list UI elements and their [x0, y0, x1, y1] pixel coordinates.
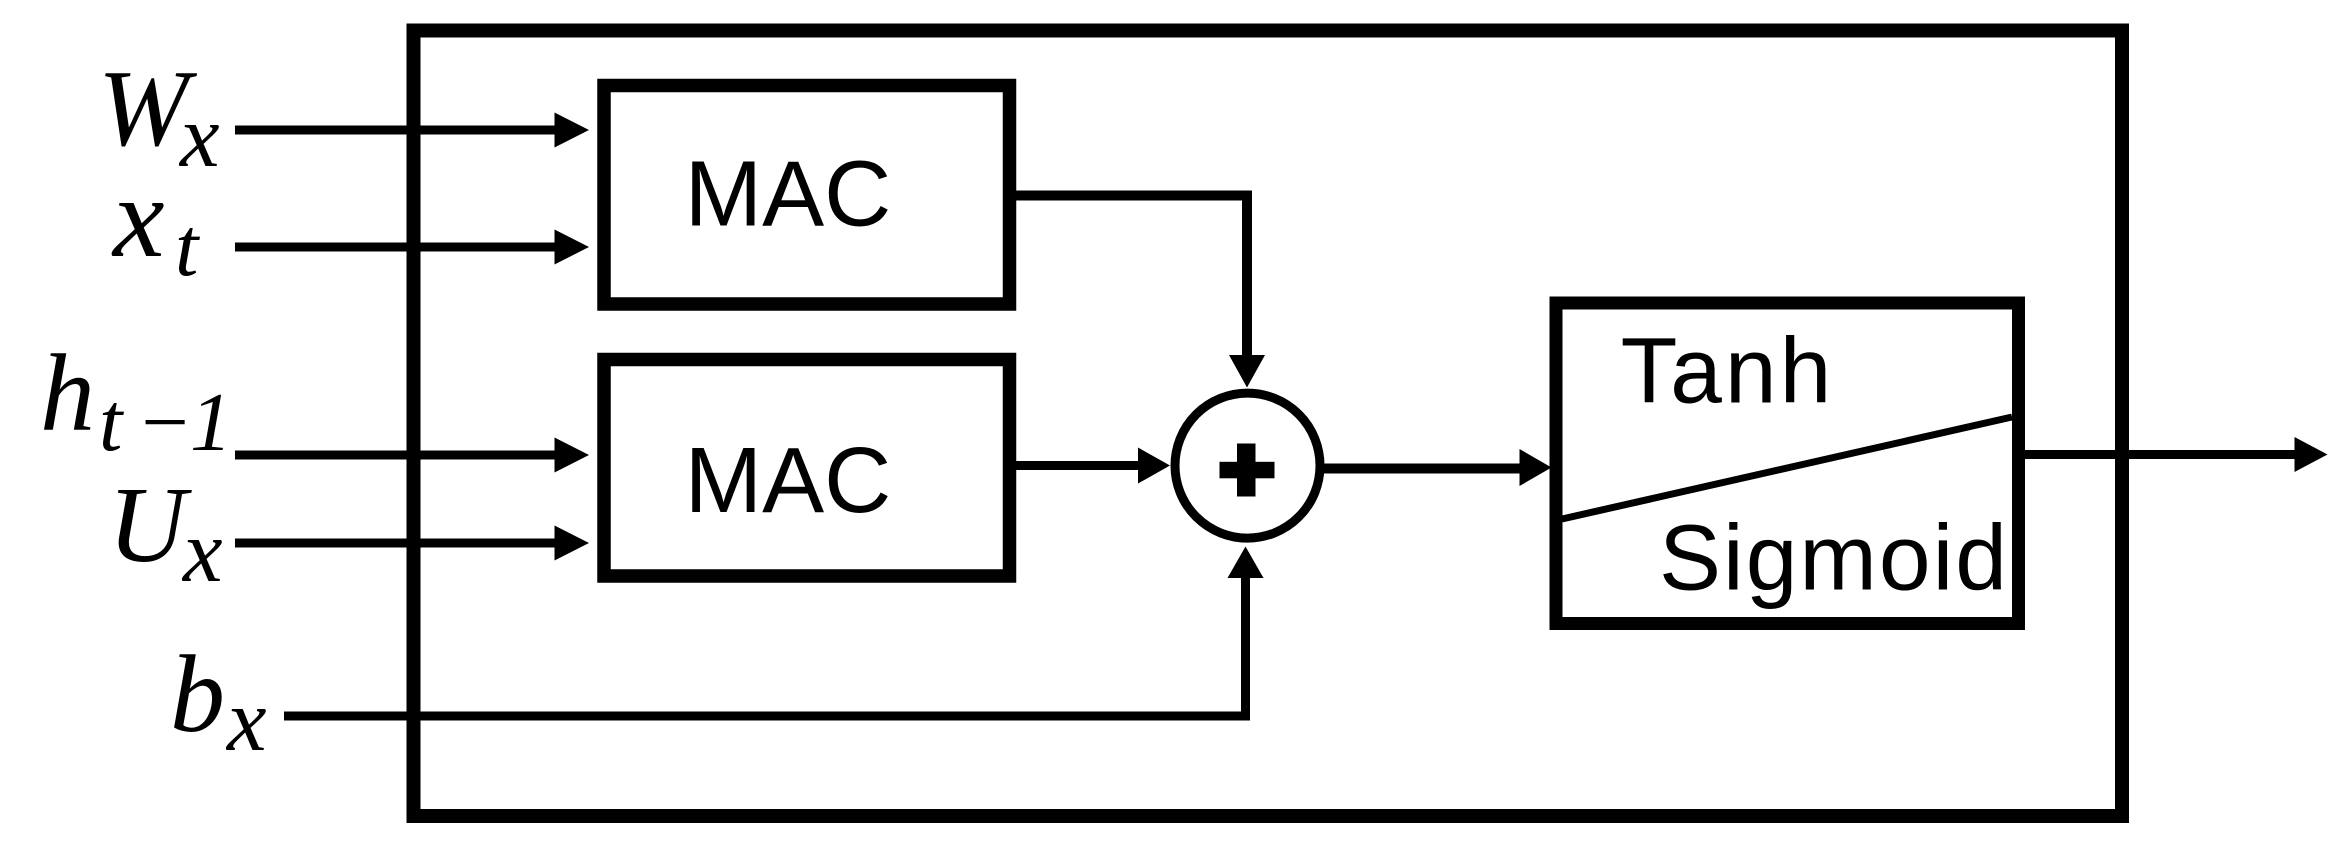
wire x_t input [235, 243, 560, 252]
svg-text:U: U [108, 466, 192, 585]
output arrowhead [2295, 437, 2328, 472]
arrowhead into adder bottom [1228, 547, 1264, 579]
svg-text:b: b [170, 633, 225, 755]
arrowhead into adder left [1138, 448, 1170, 484]
MAC block U2 [604, 360, 1010, 577]
activation block Tanh/Sigmoid [1556, 303, 2019, 624]
svg-text:h: h [40, 332, 95, 454]
output wire [2025, 450, 2296, 459]
svg-text:−: − [136, 376, 193, 469]
svg-text:t: t [99, 376, 125, 469]
wire adder to activation block [1322, 464, 1522, 474]
arrowhead W_x [555, 113, 590, 148]
plus sign [1220, 462, 1275, 479]
wire W_x input [235, 126, 560, 135]
wire h_t-1 input [235, 451, 560, 460]
arrowhead x_t [555, 230, 590, 265]
outer block boundary [414, 31, 2123, 817]
label h_t-1 [40, 332, 232, 469]
wire U_x input [235, 539, 560, 548]
adder circle [1175, 393, 1320, 538]
arrowhead U_x [555, 526, 590, 561]
arrowhead h_t-1 [555, 438, 590, 473]
wire MAC U2 output to adder [1016, 461, 1140, 470]
svg-text:x: x [225, 672, 267, 770]
svg-text:MAC: MAC [685, 428, 892, 532]
wire b_x input (horizontal then up into adder bottom) [284, 578, 1246, 716]
svg-text:MAC: MAC [685, 142, 892, 246]
label U_x [108, 466, 223, 601]
arrowhead into adder top [1229, 355, 1265, 388]
label x_t [111, 154, 201, 294]
MAC block U1 [604, 86, 1010, 305]
svg-text:Tanh: Tanh [1621, 319, 1835, 423]
label b_x [170, 633, 267, 770]
svg-text:Sigmoid: Sigmoid [1659, 506, 2009, 610]
label W_x [98, 48, 220, 186]
svg-text:x: x [111, 154, 165, 282]
arrowhead into activation block [1520, 449, 1552, 486]
svg-text:t: t [175, 201, 201, 294]
wire MAC U1 output to adder (horizontal then down) [1016, 196, 1247, 356]
svg-text:1: 1 [190, 376, 232, 469]
svg-text:x: x [181, 503, 223, 601]
svg-text:x: x [178, 88, 220, 186]
diagonal divider [1562, 417, 2012, 519]
